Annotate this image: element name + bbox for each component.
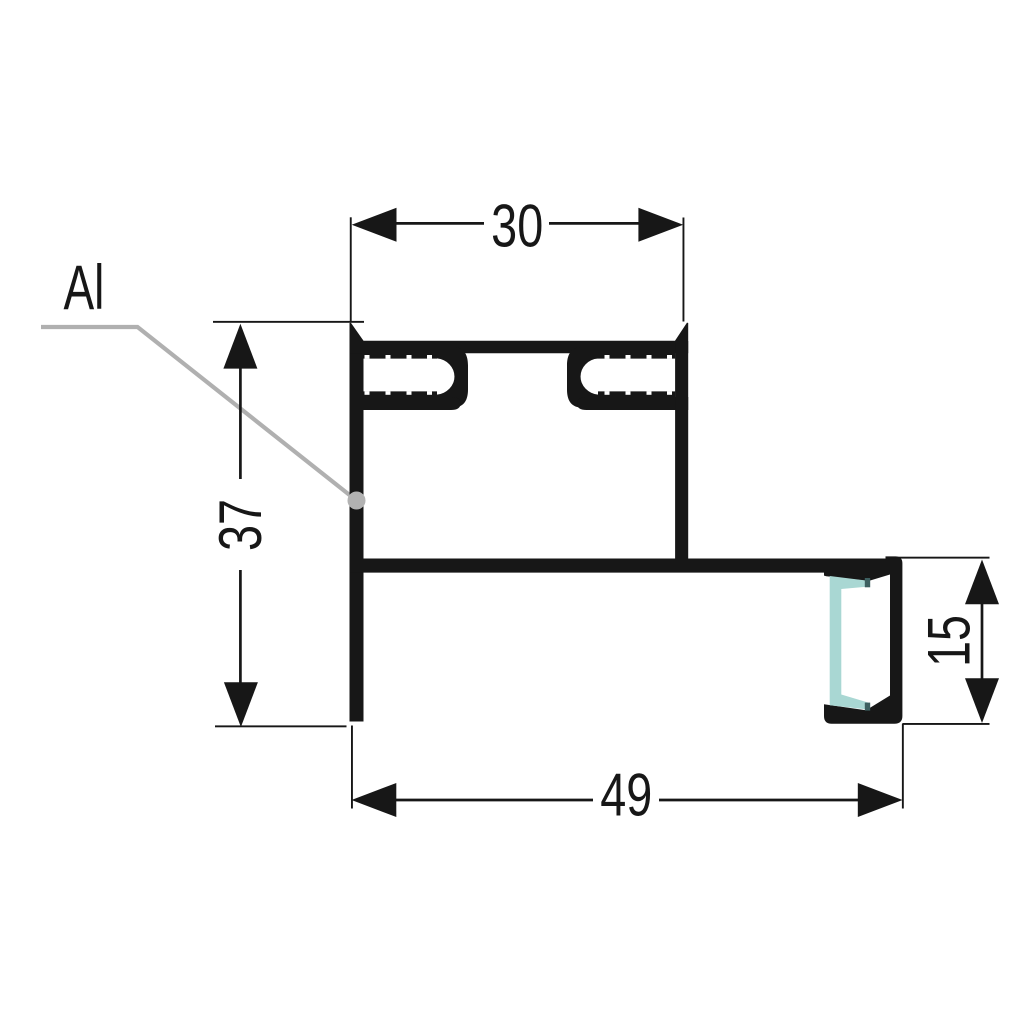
- gasket overlap dark top: [865, 578, 870, 587]
- dimension line 15: [981, 603, 984, 680]
- clamp jaw top: [824, 569, 890, 581]
- teeth row lower left: [362, 391, 437, 397]
- arrow 49 left: [352, 783, 397, 817]
- bottom arm with right hook wall and lip: [350, 556, 903, 723]
- extension line 37 top: [213, 321, 364, 323]
- teeth notches upper left: [365, 355, 433, 359]
- teeth row upper left: [362, 353, 437, 359]
- extension line 49 left: [351, 726, 353, 809]
- arrow 37 up: [223, 324, 257, 369]
- teeth notches lower right: [605, 391, 673, 395]
- teeth notches upper right: [605, 355, 673, 359]
- leader dot on left wall: [348, 492, 366, 510]
- teeth row lower right: [598, 391, 675, 397]
- clamp jaw bottom: [824, 696, 890, 712]
- extension line 15 bottom: [902, 723, 989, 725]
- screw boss left: [437, 347, 468, 408]
- dimension line 30: [396, 222, 639, 225]
- profile top flange with end lips: [350, 323, 689, 354]
- gasket overlap dark bottom: [865, 703, 870, 711]
- arrow 30 left: [352, 208, 397, 242]
- extension line 30 left: [350, 217, 352, 322]
- dimension line 49: [396, 799, 858, 802]
- extension line 49 right: [902, 724, 904, 809]
- body top wall right segment: [577, 397, 688, 410]
- svg-text:15: 15: [916, 615, 983, 667]
- teeth notches lower left: [365, 391, 433, 395]
- profile left wall: [350, 323, 364, 722]
- arrow 30 right: [638, 208, 683, 242]
- arrow 37 down: [224, 682, 258, 727]
- extension line 30 right: [683, 218, 685, 322]
- dimension line 37: [239, 368, 242, 683]
- svg-text:30: 30: [491, 193, 543, 260]
- teeth row upper right: [586, 353, 675, 359]
- svg-text:49: 49: [600, 762, 652, 829]
- arrow 49 right: [858, 783, 903, 817]
- svg-text:Al: Al: [64, 252, 105, 323]
- body right wall: [675, 341, 688, 559]
- body top wall left segment: [350, 397, 461, 410]
- leader line Al: [41, 327, 357, 501]
- screw boss right: [567, 347, 598, 408]
- arrow 15 down: [965, 678, 999, 723]
- extension line 37 bottom: [215, 725, 347, 727]
- extension line 15 top: [886, 557, 990, 559]
- gasket teal: [830, 576, 868, 710]
- svg-text:37: 37: [207, 499, 274, 551]
- arrow 15 up: [965, 560, 999, 605]
